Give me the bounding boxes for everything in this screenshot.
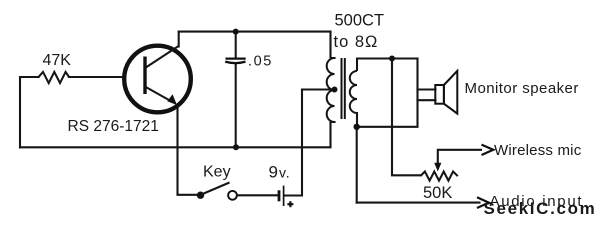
wire switch to battery: [237, 194, 277, 196]
resistor 47K: [39, 72, 70, 83]
svg-text:.05: .05: [248, 54, 273, 70]
switch S1 lever: [203, 183, 230, 195]
transistor Q1 base bar: [143, 57, 146, 95]
transistor Q1 emitter stroke: [146, 87, 173, 102]
svg-text:SeekIC.com: SeekIC.com: [484, 199, 597, 218]
wire secondary spine top: [356, 59, 358, 72]
svg-text:9: 9: [269, 162, 278, 181]
wire left loop (base side): [20, 77, 39, 147]
wire primary top feed: [331, 32, 335, 58]
transistor Q1 circle: [124, 46, 191, 113]
arrowhead audio input: [477, 197, 489, 208]
wire bottom rail: [20, 122, 335, 147]
wire capacitor top lead: [235, 32, 237, 58]
node secondary bottom junction: [354, 124, 360, 130]
wire wiper output to wireless mic: [438, 150, 481, 163]
svg-text:500CT: 500CT: [335, 12, 385, 30]
svg-text:50K: 50K: [423, 184, 452, 202]
node junction cap top: [233, 29, 239, 35]
svg-text:RS 276-1721: RS 276-1721: [68, 118, 159, 135]
wire pot feed drop: [392, 59, 421, 176]
svg-text:Wireless mic: Wireless mic: [494, 142, 582, 159]
transformer T1 core bar right: [344, 58, 346, 119]
transistor Q1 emitter arrowhead: [167, 94, 177, 105]
wire speaker stub bottom: [418, 99, 436, 101]
svg-text:v.: v.: [279, 164, 290, 180]
wire battery positive riser: [284, 90, 302, 196]
wire audio output line: [357, 202, 480, 204]
battery plus sign: [287, 201, 293, 207]
transistor Q1 collector stroke: [146, 46, 178, 67]
node junction cap bottom: [233, 144, 239, 150]
switch S1 Key: pole dot: [197, 192, 204, 199]
wire top rail: [179, 31, 331, 33]
capacitor C1 bottom plate (curved): [225, 62, 245, 64]
potentiometer 50K zigzag: [421, 172, 458, 181]
wire base lead: [69, 76, 124, 78]
wire speaker stub top: [418, 88, 436, 90]
wire emitter drop: [178, 107, 197, 195]
wire speaker return: [357, 59, 418, 127]
switch S1 throw contact: [228, 191, 237, 200]
speaker LS1 driver frame: [435, 85, 444, 104]
node secondary top junction: [389, 56, 395, 62]
arrowhead wireless mic: [482, 145, 494, 155]
transformer T1 secondary winding: [350, 71, 357, 113]
speaker LS1 cone: [444, 71, 457, 114]
svg-text:Monitor speaker: Monitor speaker: [465, 80, 579, 97]
svg-text:47K: 47K: [43, 52, 72, 69]
wire collector riser: [178, 32, 180, 47]
transformer T1 primary winding: [327, 58, 335, 122]
capacitor C1 top plate: [226, 57, 246, 59]
wire audio drop: [356, 127, 358, 203]
wire capacitor bottom lead: [235, 64, 237, 148]
potentiometer wiper arrowhead: [434, 163, 441, 172]
wire secondary top lead: [357, 57, 418, 59]
wire center tap feed: [302, 88, 335, 90]
battery B1 negative plate (short): [278, 190, 281, 201]
svg-text:to 8Ω: to 8Ω: [334, 33, 379, 51]
wire secondary bottom lead: [356, 113, 358, 127]
svg-text:Key: Key: [203, 164, 231, 181]
node center tap: [332, 87, 338, 93]
transformer T1 core bar left: [341, 58, 343, 119]
battery B1 positive plate (long): [283, 186, 285, 206]
